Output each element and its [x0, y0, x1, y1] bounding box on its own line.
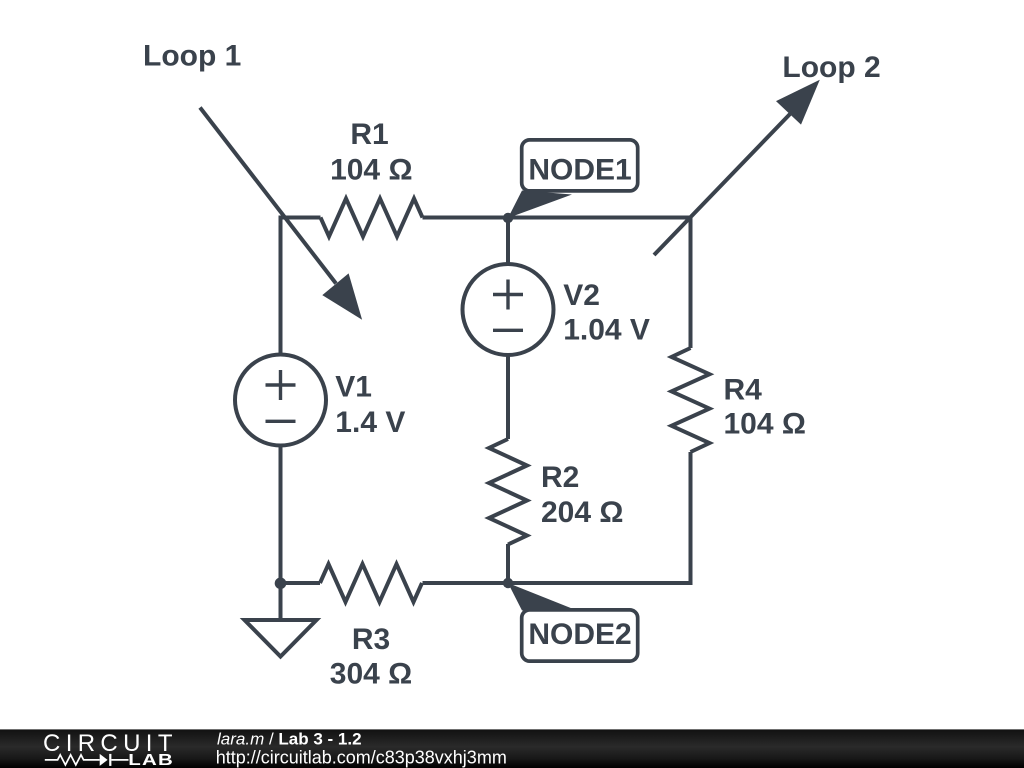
svg-text:R1: R1: [350, 118, 388, 151]
svg-text:LAB: LAB: [128, 750, 174, 768]
svg-text:NODE2: NODE2: [528, 618, 631, 651]
wire top-left to R1: [279, 216, 321, 220]
loop 1 annotation arrow: [200, 108, 362, 320]
wire top-right corner to R4: [689, 216, 693, 349]
resistor R3: [320, 564, 422, 602]
wire left vertical upper (corner to V1 top): [279, 216, 283, 356]
svg-text:NODE1: NODE1: [528, 154, 631, 187]
node NODE2 callout pointer: [508, 583, 572, 611]
footer bar: [0, 729, 1024, 768]
node NODE2 junction dot: [503, 578, 513, 588]
resistor R4: [672, 348, 710, 452]
label R2: [541, 461, 623, 529]
label R1: [330, 118, 412, 187]
svg-text:104 Ω: 104 Ω: [330, 153, 412, 186]
resistor R1: [321, 199, 423, 237]
svg-text:Loop 2: Loop 2: [782, 51, 880, 84]
wire node1 to V2 top: [506, 218, 510, 265]
svg-text:104 Ω: 104 Ω: [724, 408, 806, 441]
CircuitLab logo diode: [100, 754, 108, 766]
svg-text:lara.m / Lab 3 - 1.2: lara.m / Lab 3 - 1.2: [217, 729, 362, 748]
voltage source V1: [235, 355, 326, 446]
node NODE2 callout box: [522, 610, 638, 661]
wire V2 bottom to R2: [506, 355, 510, 439]
svg-text:R3: R3: [352, 623, 390, 656]
svg-text:V2: V2: [563, 279, 600, 312]
wire ground stem: [279, 583, 283, 622]
CircuitLab logo resistor squiggle: [45, 755, 100, 765]
svg-text:http://circuitlab.com/c83p38vx: http://circuitlab.com/c83p38vxhj3mm: [216, 748, 507, 768]
svg-text:204 Ω: 204 Ω: [541, 496, 623, 529]
voltage source V2: [463, 264, 554, 355]
svg-text:304 Ω: 304 Ω: [330, 658, 412, 691]
wire R2 to node2: [506, 544, 510, 583]
label R3: [330, 623, 412, 691]
wire V1 bottom to bottom-left junction: [279, 446, 283, 584]
V2 minus sign: [493, 329, 523, 332]
node NODE1 callout pointer: [508, 191, 572, 219]
node ground junction dot: [275, 578, 287, 590]
svg-text:Loop 1: Loop 1: [143, 40, 241, 73]
label V1: [335, 371, 405, 439]
V1 plus sign: [266, 370, 296, 400]
svg-text:R2: R2: [541, 461, 579, 494]
svg-text:V1: V1: [335, 371, 372, 404]
wire bottom-left to R3: [281, 581, 321, 585]
node NODE1 callout box: [522, 140, 638, 191]
wire R1 to node1 to top-right corner: [423, 216, 693, 220]
svg-text:1.4 V: 1.4 V: [335, 406, 405, 439]
label R4: [724, 374, 806, 441]
label V2: [563, 279, 650, 346]
ground: [245, 620, 317, 657]
loop 2 annotation arrow: [654, 80, 820, 255]
V1 minus sign: [266, 420, 296, 423]
svg-text:1.04 V: 1.04 V: [563, 313, 650, 346]
wire R4 to bottom-right corner: [689, 452, 693, 585]
resistor R2: [489, 439, 527, 545]
wire R3 to node2 to bottom-right corner: [423, 581, 693, 585]
node NODE1 junction dot: [503, 213, 513, 223]
V2 plus sign: [493, 280, 523, 310]
svg-text:R4: R4: [724, 374, 763, 407]
